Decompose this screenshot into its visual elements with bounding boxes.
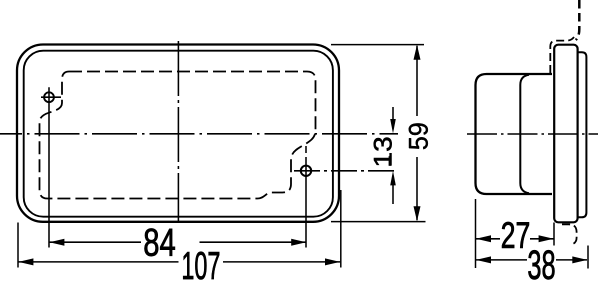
dim 107 extension right (340, 190, 342, 268)
dim 59 line lower segment (416, 157, 418, 220)
dim 38 extension right (587, 246, 589, 269)
dim 38 line (476, 259, 527, 261)
dim 59 extension bottom (331, 221, 426, 223)
dim 59 line upper segment (416, 46, 418, 116)
dim 84 arrows (49, 239, 64, 246)
housing outer rim (front view) (17, 45, 339, 222)
dim 84 line (49, 241, 141, 243)
dim 27 line (476, 238, 500, 240)
housing inner rim (front view) (24, 51, 333, 217)
dim 27 arrows (476, 235, 491, 242)
screw hole left cross mark (41, 96, 61, 98)
hidden cable (dashed) (576, 0, 580, 40)
dim 59 extension top (331, 44, 424, 46)
dim 27 label (502, 222, 529, 248)
dim 59 arrow down (414, 206, 421, 221)
side view mounting flange (554, 45, 577, 223)
dim 27 extension right (553, 223, 555, 246)
hidden grommet outline (dashed) top (550, 37, 574, 73)
dim 13 label (374, 138, 392, 166)
horizontal centerline (front view) (0, 133, 398, 135)
screw hole right centerline toward 13 dim (294, 170, 398, 172)
dim 107 extension left (17, 223, 19, 268)
dim 59 label (409, 123, 428, 149)
serif foot of "1" in 107 (183, 276, 193, 279)
screw hole right vertical centerline / extension to 84 (305, 146, 307, 153)
dim 38 arrows (476, 256, 491, 263)
hidden boss outline (dashed) bottom (562, 224, 577, 244)
dim 59 arrow up (414, 45, 421, 60)
dim 27/38 extension left (475, 199, 477, 268)
dim 13 arrow upper (points down) (392, 107, 394, 120)
dim 107 arrows (18, 258, 33, 265)
screw hole right (301, 166, 311, 176)
lens opening hidden outline (dashed) (40, 72, 316, 199)
dim 84 label (145, 228, 175, 256)
side view rear plate (578, 52, 587, 217)
dim 13 arrow lower (points up) (392, 185, 394, 204)
side view centerline (467, 133, 598, 135)
dim 107 label (183, 252, 219, 280)
serif foot of "1" in 13 (389, 156, 392, 166)
vertical centerline (front view) (177, 41, 179, 222)
dim 107 line (18, 261, 179, 263)
dim 38 label (528, 250, 554, 279)
side view body outline (476, 74, 553, 194)
side view lens parting line (520, 75, 529, 193)
screw hole left centerline / extension to 84 (48, 87, 50, 247)
screw hole left (44, 92, 54, 102)
